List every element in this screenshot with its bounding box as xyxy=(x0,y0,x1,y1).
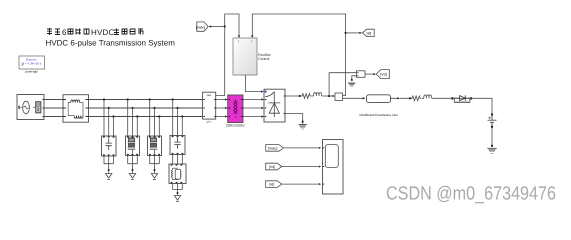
ground G7 xyxy=(299,121,307,129)
Vm minus wire to ground xyxy=(352,76,357,80)
DC+ wire from bridge xyxy=(285,95,300,97)
arrowhead into pulse port xyxy=(261,90,264,92)
ground G2 xyxy=(129,174,135,180)
ground G3 xyxy=(151,174,157,180)
ground G4 xyxy=(174,196,180,202)
rectifier control block U1 xyxy=(233,38,272,75)
svg-text:6: 6 xyxy=(62,28,67,37)
bus wire phase A xyxy=(44,99,203,101)
svg-text:V-I: V-I xyxy=(206,120,210,124)
filter F2 (C-L-R) xyxy=(126,136,140,156)
goto tag [Vabc] xyxy=(196,22,208,31)
AC source circle with sine xyxy=(23,101,30,114)
V-I measurement block xyxy=(203,92,216,124)
svg-text:Ts = 4.34e-05 s.: Ts = 4.34e-05 s. xyxy=(21,61,42,65)
DC- wire from bridge to ground xyxy=(285,114,303,124)
filter F1 (C bank) xyxy=(102,136,117,156)
junction dots on bus for filter drops xyxy=(103,98,183,117)
wire junction to goto Id xyxy=(346,32,360,34)
junction Vd tap xyxy=(328,95,330,97)
svg-text:[Vabc]: [Vabc] xyxy=(268,146,277,150)
ground G5 xyxy=(348,83,355,86)
distributed parameters line block xyxy=(360,95,399,117)
junction on Vabc wire xyxy=(224,25,226,27)
wire Im to DPL xyxy=(343,97,364,99)
svg-text:[Id]: [Id] xyxy=(270,183,275,187)
junction on Id wire xyxy=(345,32,347,34)
filter F4 lower (parallel R-L) xyxy=(169,164,186,184)
arrowhead into goto Vabc xyxy=(209,25,212,27)
arrowhead into goto Id xyxy=(359,32,362,34)
svg-text:[Vd]: [Vd] xyxy=(380,73,386,77)
wire L2 to diode xyxy=(434,97,453,99)
from tag [Vabc] scope xyxy=(266,145,284,152)
filter drop wires chain1 xyxy=(104,100,182,137)
arrowhead into control input 2 xyxy=(251,35,253,38)
ports xyxy=(43,100,45,117)
transformer Tr1 block xyxy=(63,95,89,123)
thyristor bridge converter xyxy=(264,89,285,122)
smoothing resistor R1 xyxy=(301,94,312,99)
converter transformer T2 (magenta) xyxy=(226,95,246,127)
F4 inter-block wires xyxy=(173,155,183,165)
wire from tag1 to scope xyxy=(284,147,319,149)
svg-text:[Id]: [Id] xyxy=(367,31,372,35)
title line 1 (CJK pseudo-glyphs): 单级6脉冲的HVDC仿真模型 xyxy=(47,28,143,37)
ground G1 xyxy=(106,174,112,180)
control output wire to converter pulse input xyxy=(245,75,261,92)
filter drop wires chain4 xyxy=(173,100,183,136)
bus wire phase B xyxy=(44,107,203,109)
wires transformer to converter xyxy=(243,100,263,117)
DC voltage source E1 xyxy=(488,114,497,128)
wire D1 to DC source xyxy=(471,98,493,113)
svg-text:Vabc: Vabc xyxy=(206,94,212,97)
arrowhead into current measure xyxy=(332,95,335,97)
Vd tap wire up to voltage measurement xyxy=(329,73,356,96)
filter F4 upper (C bank) xyxy=(170,136,185,155)
filter drop wires chain3 xyxy=(150,100,160,137)
filter F3 (C-L-R) xyxy=(148,136,162,156)
smoothing inductor L1 xyxy=(311,93,324,96)
filter drop wires chain2 xyxy=(128,100,138,137)
wire Vabc measurement up to control input 1 xyxy=(216,14,239,96)
wire from tag2 to scope xyxy=(282,166,318,168)
svg-text:220kV/220kV: 220kV/220kV xyxy=(226,123,246,127)
F1 merge wires to ground xyxy=(104,156,114,173)
resistor R2 xyxy=(411,96,421,101)
ground G6 xyxy=(487,148,497,153)
goto tag [Vd] xyxy=(376,70,389,79)
svg-text:Control: Control xyxy=(258,57,269,61)
svg-text:CSDN @m0_67349476: CSDN @m0_67349476 xyxy=(386,184,556,205)
powergui block xyxy=(19,56,45,73)
svg-text:powergui: powergui xyxy=(25,69,38,73)
wire DPL to R2 xyxy=(391,97,410,99)
diode D1 xyxy=(454,95,470,102)
from tag [Vd] scope xyxy=(266,163,282,170)
svg-text:HVDC: HVDC xyxy=(91,28,114,37)
from tag [Id] scope xyxy=(266,181,282,188)
pulse port (blue) xyxy=(265,91,267,93)
Vm output wire to goto Vd xyxy=(365,73,374,75)
svg-text:HVDC 6-pulse Transmission Syst: HVDC 6-pulse Transmission System xyxy=(46,38,176,47)
three-phase source block xyxy=(17,95,44,120)
svg-text:Distributed Parameters Line: Distributed Parameters Line xyxy=(360,113,399,117)
arrowhead into control input 1 xyxy=(238,35,240,38)
inductor L2 xyxy=(422,95,434,98)
bus wire phase C xyxy=(44,116,203,118)
current measurement block Im xyxy=(335,93,343,101)
goto tag [Id] xyxy=(362,29,374,36)
scope block xyxy=(323,140,344,195)
wire Id measurement up to control input 2 xyxy=(252,14,345,95)
wires V-I to converter transformer xyxy=(216,100,227,117)
wire from tag3 to scope xyxy=(282,183,318,185)
voltage measurement block Vm xyxy=(357,71,366,78)
svg-text:[Vabc]: [Vabc] xyxy=(196,25,205,29)
series RL icon xyxy=(36,102,42,114)
wire E1 to ground xyxy=(491,128,493,146)
svg-text:[Vd]: [Vd] xyxy=(269,165,275,169)
wire junction to Goto tag Vabc xyxy=(211,26,225,28)
thyristor symbol xyxy=(268,92,280,118)
